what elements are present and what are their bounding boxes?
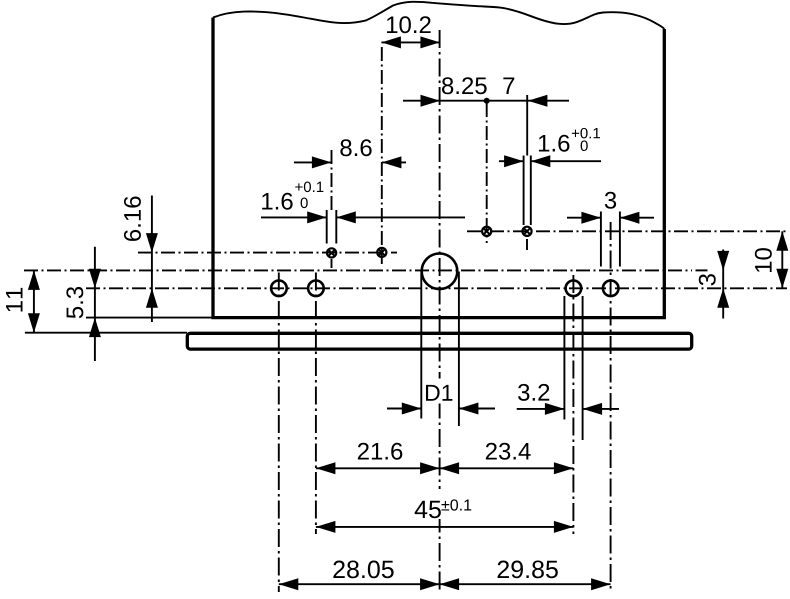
dimension 3.2 bbox=[517, 384, 619, 415]
dimension 3 (right slot width) bbox=[567, 192, 654, 224]
panel body outline (left, bottom, right edges) bbox=[213, 18, 664, 318]
centerline row A (left slot holes) bbox=[138, 252, 397, 254]
column axis left cross-hole 1 bbox=[331, 150, 333, 268]
column axis right cross-hole 1 bbox=[486, 103, 488, 243]
cross-hole right 1 bbox=[482, 227, 491, 236]
hole R2 bbox=[603, 281, 619, 297]
centerline row B (large hole axis) bbox=[24, 269, 692, 271]
left 1.6 slot edges bbox=[327, 210, 337, 244]
panel body break line (wavy top edge) bbox=[213, 2, 664, 29]
column axis hole R1 bbox=[572, 275, 574, 534]
center column axis bbox=[439, 30, 441, 592]
hole L1 bbox=[271, 281, 287, 297]
dimension 1.6 +0.1/0 (left slot) bbox=[261, 182, 465, 224]
right 1.6 slot edges bbox=[524, 156, 531, 226]
centerline row A' (right slot holes) bbox=[467, 230, 787, 232]
rail top extension line (left) bbox=[25, 332, 187, 334]
column axis hole L1 bbox=[278, 273, 280, 593]
large hole D1 bbox=[422, 253, 458, 289]
rail 3.2 slot edges bbox=[564, 296, 582, 440]
cross-hole right 2 bbox=[522, 227, 531, 236]
dimension 3 (right vertical B to C) bbox=[699, 250, 729, 319]
column axis right cross-hole 2 (below hole) bbox=[526, 239, 528, 250]
cross-hole left 2 bbox=[377, 248, 386, 257]
dimension 45 +-0.1 bbox=[316, 489, 574, 533]
dimension 8.6 bbox=[294, 139, 406, 168]
hole R1 bbox=[566, 281, 582, 297]
dimension chain 28.05 / 29.85 bbox=[279, 561, 611, 591]
panel bottom extension line (left) bbox=[86, 317, 212, 319]
dimension 10.2 bbox=[381, 16, 440, 48]
D1 hole edge extension lines bbox=[421, 272, 459, 427]
dimension chain 21.6 / 23.4 bbox=[316, 443, 574, 475]
dimension chain 8.25 / 7 bbox=[403, 77, 569, 155]
dimension 5.3 (vertical) bbox=[66, 247, 101, 361]
dimension 1.6 +0.1/0 (right slot) bbox=[499, 128, 601, 167]
dimension 6.16 (vertical) bbox=[124, 196, 158, 323]
cross-hole left 1 bbox=[327, 248, 336, 257]
column axis hole L2 bbox=[315, 273, 317, 535]
right 3 slot edges bbox=[601, 212, 620, 267]
dimension 11 (vertical) bbox=[6, 270, 40, 332]
dimension D1 bbox=[387, 379, 495, 415]
column axis left cross-hole 2 bbox=[381, 47, 383, 264]
column axis hole R2 bbox=[610, 222, 612, 592]
rail (bottom mounting bar) bbox=[187, 333, 691, 349]
centerline row C (lower hole row) bbox=[86, 287, 787, 289]
dimension 10 (right vertical) bbox=[755, 231, 788, 288]
hole L2 bbox=[308, 281, 324, 297]
